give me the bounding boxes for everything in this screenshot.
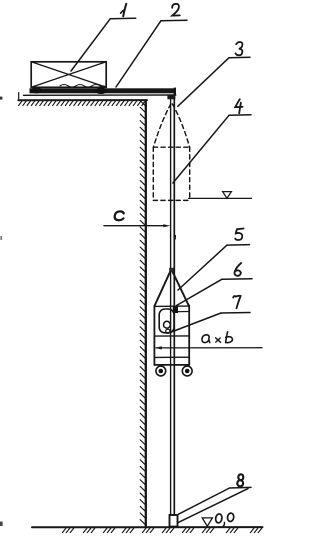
roller left under box: [31, 87, 43, 93]
wall hatching: [140, 101, 145, 525]
upper level mark (nabla): [223, 192, 232, 199]
datum mark 0,0: [202, 518, 212, 526]
callout 1: [71, 4, 136, 71]
capsule bottom circle: [166, 329, 170, 333]
capsule (instrument): [159, 309, 174, 333]
body internal line mid: [154, 335, 189, 337]
cone apex knob: [169, 268, 174, 272]
a x b text: [202, 332, 232, 343]
top ground hatching: [19, 101, 146, 106]
wheel right: [182, 366, 192, 376]
device body: [154, 305, 189, 365]
callout 2: [116, 4, 187, 87]
scan fleck mid-left: [0, 236, 2, 240]
c arrow line: [104, 224, 170, 227]
sounding rod (two parallel lines): [171, 99, 175, 515]
a x b dimension line: [155, 346, 262, 349]
bottom ground line: [32, 526, 263, 528]
hanger block under beam end: [167, 95, 175, 99]
callout 5: [178, 229, 250, 291]
beam (rail) on top ground: [24, 85, 177, 96]
label 0,0: [215, 513, 234, 527]
penetrometer cone: [154, 269, 188, 306]
label c: [114, 211, 124, 220]
dashed bell (parachute) outline: [153, 104, 189, 200]
roller right under box: [95, 88, 107, 94]
wheel left: [156, 366, 166, 376]
top ground line: [18, 99, 147, 101]
stray dash on rod: [174, 236, 176, 240]
scan fleck bottom-left: [0, 522, 3, 527]
sensor black square: [173, 306, 178, 313]
body internal line upper: [177, 311, 190, 313]
callout 6: [177, 263, 253, 306]
body internal line lower: [154, 356, 189, 358]
callout 4: [173, 99, 251, 183]
rod tip box: [170, 515, 178, 527]
callout 8: [178, 474, 251, 522]
shaft wall: [145, 101, 147, 528]
capsule circle: [164, 321, 171, 328]
callout 3: [178, 42, 250, 106]
winch box with X brace: [31, 62, 106, 88]
ground line start tick: [18, 93, 20, 101]
callout 7: [170, 296, 250, 333]
bottom ground hatching: [62, 528, 261, 533]
scan fleck top-left: [0, 97, 2, 100]
upper level line: [189, 197, 252, 199]
